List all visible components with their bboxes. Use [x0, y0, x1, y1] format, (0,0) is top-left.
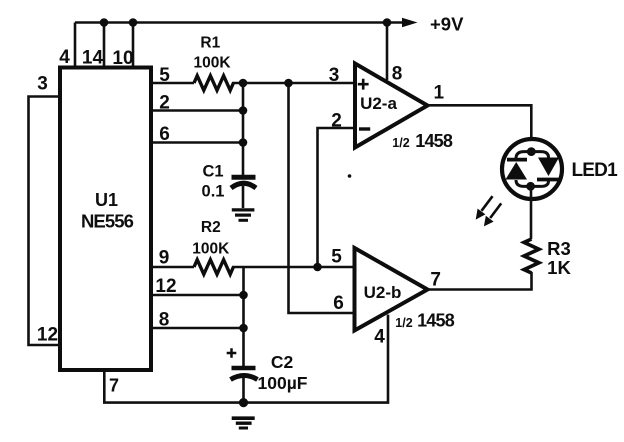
svg-text:9: 9 — [159, 248, 170, 269]
svg-text:8: 8 — [392, 64, 403, 85]
svg-text:R1: R1 — [200, 35, 220, 52]
svg-text:0.1: 0.1 — [202, 183, 225, 201]
svg-text:4: 4 — [374, 327, 385, 348]
svg-text:1K: 1K — [547, 257, 571, 278]
svg-text:6: 6 — [333, 293, 344, 314]
svg-text:5: 5 — [159, 65, 170, 86]
svg-text:LED1: LED1 — [572, 160, 619, 181]
svg-text:1: 1 — [434, 83, 445, 104]
svg-text:6: 6 — [159, 124, 170, 145]
svg-text:C2: C2 — [271, 352, 294, 372]
svg-text:100µF: 100µF — [258, 373, 308, 393]
svg-text:R2: R2 — [201, 219, 221, 236]
svg-text:100K: 100K — [193, 55, 231, 72]
svg-text:U2-b: U2-b — [364, 283, 402, 302]
svg-text:1/2: 1/2 — [395, 316, 412, 330]
svg-text:12: 12 — [37, 325, 58, 346]
svg-text:2: 2 — [159, 93, 170, 114]
svg-text:NE556: NE556 — [81, 211, 134, 232]
svg-text:2: 2 — [331, 111, 342, 132]
svg-text:14: 14 — [82, 48, 104, 69]
svg-text:7: 7 — [109, 376, 119, 396]
svg-text:7: 7 — [430, 270, 441, 291]
svg-text:U2-a: U2-a — [360, 94, 397, 113]
svg-text:3: 3 — [37, 74, 48, 95]
svg-text:100K: 100K — [192, 241, 230, 258]
svg-text:1458: 1458 — [417, 311, 455, 331]
svg-text:1458: 1458 — [415, 131, 453, 151]
svg-text:12: 12 — [155, 276, 176, 297]
svg-text:5: 5 — [331, 247, 342, 268]
svg-text:4: 4 — [59, 47, 70, 68]
svg-text:10: 10 — [112, 48, 133, 69]
svg-text:1/2: 1/2 — [392, 136, 409, 150]
svg-text:C1: C1 — [202, 163, 223, 181]
svg-text:U1: U1 — [95, 190, 118, 210]
svg-text:8: 8 — [159, 310, 170, 331]
svg-text:+9V: +9V — [430, 14, 464, 35]
svg-text:3: 3 — [329, 65, 340, 86]
svg-text:R3: R3 — [547, 238, 571, 259]
